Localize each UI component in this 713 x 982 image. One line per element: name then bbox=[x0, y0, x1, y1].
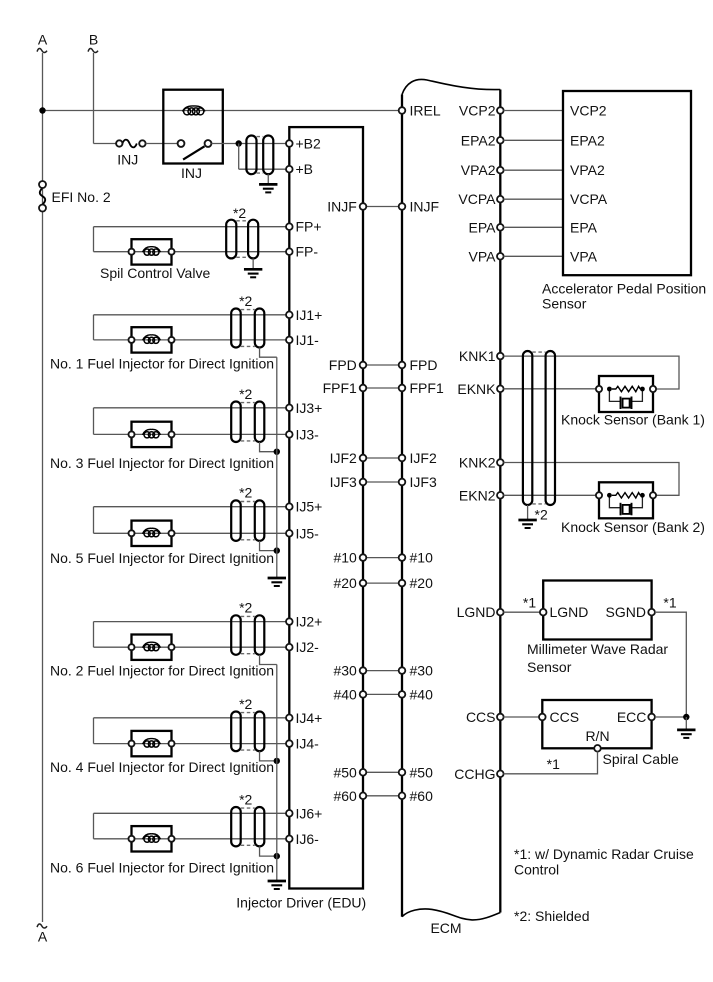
wire LGND bbox=[503, 611, 540, 613]
pin label EPA (APP sensor) bbox=[570, 219, 598, 235]
svg-text:ECM: ECM bbox=[430, 920, 461, 936]
terminal VPA (ECM) bbox=[469, 248, 504, 264]
wire IJF3 EDU to ECM bbox=[366, 481, 399, 483]
svg-text:IJ1+: IJ1+ bbox=[296, 307, 323, 323]
svg-text:*2: *2 bbox=[239, 293, 252, 309]
shield capsules IJ6 bbox=[231, 807, 264, 846]
terminal FP+ (EDU) bbox=[286, 219, 322, 235]
wire #50 EDU to ECM bbox=[366, 771, 399, 773]
svg-text:IJ3-: IJ3- bbox=[296, 426, 320, 442]
terminal #40 (EDU side) bbox=[333, 686, 366, 702]
terminal IJF3 (ECM side) bbox=[399, 474, 437, 490]
relay INJ switch bbox=[178, 140, 212, 160]
svg-text:*1: *1 bbox=[523, 595, 536, 611]
svg-text:A: A bbox=[38, 32, 48, 48]
svg-text:No. 2 Fuel Injector for Direct: No. 2 Fuel Injector for Direct Ignition bbox=[50, 663, 274, 679]
label Knock Sensor (Bank 2) bbox=[561, 519, 705, 535]
wire IJ4 shield drain bbox=[260, 751, 277, 761]
wire IJ2 loop bbox=[94, 622, 287, 648]
terminal FPF1 (ECM side) bbox=[399, 380, 444, 396]
label Spil Control Valve bbox=[100, 265, 210, 281]
wire SGND to ground bbox=[655, 612, 687, 717]
ground FP shield bbox=[244, 269, 262, 277]
label Millimeter Wave Radar Sensor bbox=[527, 641, 668, 675]
svg-text:Injector Driver (EDU): Injector Driver (EDU) bbox=[236, 895, 366, 911]
svg-text:IREL: IREL bbox=[410, 103, 441, 119]
terminal +B2 (EDU) bbox=[286, 136, 321, 152]
terminal IJ3- (EDU) bbox=[286, 426, 319, 442]
terminal INJF (ECM side) bbox=[399, 199, 439, 215]
terminal #30 (ECM side) bbox=[399, 663, 433, 679]
terminal #60 (ECM side) bbox=[399, 788, 433, 804]
svg-text:CCS: CCS bbox=[466, 709, 496, 725]
junction drain IJ4 bbox=[274, 758, 280, 764]
wire FP+ loop bbox=[94, 227, 287, 252]
terminal IJ6+ (EDU) bbox=[286, 805, 322, 821]
box ECM (top wavy edge) bbox=[402, 79, 500, 94]
svg-text:VCPA: VCPA bbox=[570, 191, 608, 207]
svg-text:*2: *2 bbox=[535, 507, 548, 523]
ground shield drain (upper) bbox=[268, 578, 286, 586]
wire VCP2 to APP sensor bbox=[503, 110, 563, 112]
shield dashes IJ4 bbox=[241, 713, 255, 751]
wire shield drain bus (upper) bbox=[276, 357, 278, 577]
terminal LGND (ECM) bbox=[457, 604, 504, 620]
svg-text:#40: #40 bbox=[333, 686, 357, 702]
label No. 2 Fuel Injector bbox=[50, 663, 274, 679]
terminal ECC (spiral cable) bbox=[617, 709, 655, 725]
svg-text:EPA: EPA bbox=[570, 219, 598, 235]
label Injector Driver (EDU) bbox=[236, 895, 366, 911]
terminal FPD (ECM side) bbox=[399, 357, 438, 373]
terminal R/N (spiral cable) bbox=[585, 728, 609, 752]
label ECM bbox=[430, 920, 461, 936]
svg-text:Control: Control bbox=[514, 861, 559, 877]
wire FP shield drain bbox=[252, 258, 254, 269]
terminal CCS (ECM) bbox=[466, 709, 504, 725]
shield dashes IJ3 bbox=[241, 403, 255, 441]
svg-text:IJ4-: IJ4- bbox=[296, 736, 320, 752]
svg-text:IJ5+: IJ5+ bbox=[296, 499, 323, 515]
wire B feed line bbox=[94, 53, 117, 144]
svg-text:IJF2: IJF2 bbox=[330, 450, 357, 466]
valve Spil Control Valve bbox=[129, 239, 175, 264]
wire ECC ground stem bbox=[685, 717, 687, 730]
relay INJ coil bbox=[183, 106, 205, 115]
terminal LGND (radar) bbox=[540, 604, 589, 620]
terminal EKN2 (ECM) bbox=[459, 487, 504, 503]
svg-text:IJF3: IJF3 bbox=[330, 474, 357, 490]
terminal SGND (radar) bbox=[606, 604, 655, 620]
pin label VPA2 (APP sensor) bbox=[570, 162, 605, 178]
svg-text:*2: *2 bbox=[233, 205, 246, 221]
label *2 IJ1 shield bbox=[239, 293, 252, 309]
junction ECC/SGND ground bbox=[683, 714, 689, 720]
injector No. 2 coil symbol bbox=[129, 635, 175, 660]
svg-text:Spil Control Valve: Spil Control Valve bbox=[100, 265, 210, 281]
note *2 bbox=[514, 908, 590, 924]
wire IJ1 shield drain bbox=[260, 348, 277, 358]
terminal #50 (EDU side) bbox=[333, 764, 366, 780]
svg-text:R/N: R/N bbox=[585, 728, 609, 744]
svg-text:IJF2: IJF2 bbox=[410, 450, 437, 466]
wire EPA2 to APP sensor bbox=[503, 139, 563, 141]
wire +B shield drain bbox=[267, 174, 269, 184]
terminal IJ5- (EDU) bbox=[286, 525, 319, 541]
wire #20 EDU to ECM bbox=[366, 582, 399, 584]
label No. 5 Fuel Injector bbox=[50, 550, 274, 566]
svg-text:EPA2: EPA2 bbox=[461, 132, 496, 148]
injector No. 5 coil symbol bbox=[129, 521, 175, 546]
terminal KNK1 (ECM) bbox=[459, 348, 504, 364]
terminal FPF1 (EDU side) bbox=[323, 380, 367, 396]
svg-text:*1: w/ Dynamic Radar Cruise: *1: w/ Dynamic Radar Cruise bbox=[514, 846, 694, 862]
svg-text:FPF1: FPF1 bbox=[323, 380, 357, 396]
terminal VPA2 (ECM) bbox=[461, 162, 504, 178]
svg-text:VPA2: VPA2 bbox=[461, 162, 496, 178]
label *1 (LGND wire) bbox=[523, 595, 536, 611]
svg-text:IJ3+: IJ3+ bbox=[296, 400, 323, 416]
terminal #20 (EDU side) bbox=[333, 575, 366, 591]
svg-text:Millimeter Wave Radar: Millimeter Wave Radar bbox=[527, 641, 668, 657]
svg-text:No. 4 Fuel Injector for Direct: No. 4 Fuel Injector for Direct Ignition bbox=[50, 759, 274, 775]
wire shield drain bus (lower) bbox=[276, 665, 278, 881]
label *2 IJ4 shield bbox=[239, 696, 252, 712]
junction drain IJ3 bbox=[274, 449, 280, 455]
terminal IJF3 (EDU side) bbox=[330, 474, 367, 490]
label fuse INJ bbox=[117, 151, 138, 167]
svg-text:#50: #50 bbox=[410, 764, 434, 780]
svg-text:Sensor: Sensor bbox=[527, 659, 572, 675]
shield dashes IJ2 bbox=[241, 616, 255, 653]
shield dashes IJ1 bbox=[241, 310, 255, 347]
svg-text:IJ4+: IJ4+ bbox=[296, 710, 323, 726]
svg-text:IJ5-: IJ5- bbox=[296, 525, 320, 541]
terminal #40 (ECM side) bbox=[399, 686, 433, 702]
shield capsules IJ3 bbox=[231, 402, 264, 443]
label No. 6 Fuel Injector bbox=[50, 859, 274, 875]
wire IJ1 loop bbox=[94, 315, 287, 340]
svg-text:VCP2: VCP2 bbox=[459, 103, 496, 119]
svg-text:No. 3 Fuel Injector for Direct: No. 3 Fuel Injector for Direct Ignition bbox=[50, 455, 274, 471]
svg-text:KNK1: KNK1 bbox=[459, 348, 496, 364]
pin label VPA (APP sensor) bbox=[570, 248, 598, 264]
svg-text:KNK2: KNK2 bbox=[459, 455, 496, 471]
wire VPA to APP sensor bbox=[503, 255, 563, 257]
svg-text:#10: #10 bbox=[333, 550, 357, 566]
wire EKNK bbox=[503, 388, 596, 390]
svg-text:#20: #20 bbox=[333, 575, 357, 591]
svg-text:INJ: INJ bbox=[117, 151, 138, 167]
svg-text:INJF: INJF bbox=[410, 199, 440, 215]
wire EPA to APP sensor bbox=[503, 226, 563, 228]
shield dashes FP bbox=[236, 221, 248, 257]
svg-text:+B2: +B2 bbox=[296, 136, 322, 152]
terminal IJ1+ (EDU) bbox=[286, 307, 322, 323]
svg-text:*2: Shielded: *2: Shielded bbox=[514, 908, 590, 924]
wire FPF1 EDU to ECM bbox=[366, 387, 399, 389]
wire IJ3 shield drain bbox=[260, 442, 277, 452]
shield dashes +B2/+B bbox=[257, 137, 264, 174]
svg-text:#60: #60 bbox=[333, 788, 357, 804]
shield capsules IJ4 bbox=[231, 712, 264, 752]
terminal EPA2 (ECM) bbox=[461, 132, 504, 148]
junction relay output bbox=[236, 140, 242, 146]
terminal IJF2 (ECM side) bbox=[399, 450, 437, 466]
terminal EPA (ECM) bbox=[469, 219, 504, 235]
terminal IJF2 (EDU side) bbox=[330, 450, 367, 466]
wire FPD EDU to ECM bbox=[366, 364, 399, 366]
terminal IJ2- (EDU) bbox=[286, 639, 319, 655]
wire KNK1 bbox=[503, 356, 679, 389]
pin label VCPA (APP sensor) bbox=[570, 191, 608, 207]
node A (bottom) label bbox=[37, 924, 48, 945]
shield dashes IJ5 bbox=[241, 502, 255, 540]
box ECM (left edge) bbox=[401, 95, 403, 917]
svg-text:*1: *1 bbox=[663, 595, 676, 611]
label *2 IJ6 shield bbox=[239, 791, 252, 807]
svg-text:EFI No. 2: EFI No. 2 bbox=[52, 189, 111, 205]
svg-text:VPA: VPA bbox=[469, 248, 497, 264]
svg-text:No. 5 Fuel Injector for Direct: No. 5 Fuel Injector for Direct Ignition bbox=[50, 550, 274, 566]
terminal FPD (EDU side) bbox=[329, 357, 367, 373]
wire #30 EDU to ECM bbox=[366, 670, 399, 672]
terminal IJ1- (EDU) bbox=[286, 332, 319, 348]
shield capsules IJ1 bbox=[231, 309, 264, 348]
svg-text:VCP2: VCP2 bbox=[570, 103, 607, 119]
wire relay to +B2 bbox=[211, 143, 286, 145]
wire #10 EDU to ECM bbox=[366, 557, 399, 559]
terminal VCPA (ECM) bbox=[458, 191, 503, 207]
svg-text:#10: #10 bbox=[410, 550, 434, 566]
shield capsules FP bbox=[226, 220, 258, 259]
svg-text:#50: #50 bbox=[333, 764, 357, 780]
wire IJ6 loop bbox=[94, 813, 287, 839]
wire A feed line bbox=[42, 53, 44, 922]
label *1 (CCHG wire) bbox=[547, 756, 560, 772]
box Injector Driver (EDU) bbox=[289, 127, 363, 888]
relay INJ box bbox=[163, 90, 223, 164]
injector No. 1 coil symbol bbox=[129, 327, 175, 352]
label No. 1 Fuel Injector bbox=[50, 355, 274, 371]
svg-text:INJF: INJF bbox=[327, 199, 357, 215]
terminal IJ3+ (EDU) bbox=[286, 400, 322, 416]
terminal IREL (ECM) bbox=[399, 103, 441, 119]
wire VCPA to APP sensor bbox=[503, 198, 563, 200]
shield capsules +B2/+B bbox=[246, 136, 273, 175]
terminal VCP2 (ECM) bbox=[459, 103, 504, 119]
svg-text:VPA: VPA bbox=[570, 248, 598, 264]
terminal #20 (ECM side) bbox=[399, 575, 433, 591]
label Accelerator Pedal Position Sensor bbox=[542, 281, 706, 312]
svg-text:IJF3: IJF3 bbox=[410, 474, 437, 490]
svg-text:+B: +B bbox=[296, 161, 314, 177]
wire #40 EDU to ECM bbox=[366, 693, 399, 695]
label *2 IJ2 shield bbox=[239, 600, 252, 616]
terminal IJ4- (EDU) bbox=[286, 736, 319, 752]
svg-text:VCPA: VCPA bbox=[458, 191, 496, 207]
box Millimeter Wave Radar Sensor bbox=[543, 581, 651, 640]
shield capsules IJ2 bbox=[231, 615, 264, 655]
shield capsules IJ5 bbox=[231, 500, 264, 541]
svg-text:FP-: FP- bbox=[296, 244, 319, 260]
terminal #50 (ECM side) bbox=[399, 764, 433, 780]
wire IJ6 shield drain bbox=[260, 846, 277, 856]
svg-text:*2: *2 bbox=[239, 696, 252, 712]
injector No. 6 coil symbol bbox=[129, 826, 175, 851]
wire IJ4 loop bbox=[94, 718, 287, 744]
label No. 3 Fuel Injector bbox=[50, 455, 274, 471]
svg-text:Sensor: Sensor bbox=[542, 296, 587, 312]
wire knock shield drain bbox=[527, 505, 529, 520]
svg-text:FPD: FPD bbox=[329, 357, 357, 373]
svg-text:IJ2+: IJ2+ bbox=[296, 614, 323, 630]
label Knock Sensor (Bank 1) bbox=[561, 411, 705, 427]
terminal #60 (EDU side) bbox=[333, 788, 366, 804]
wire junction down to +B bbox=[239, 144, 286, 170]
svg-text:IJ6-: IJ6- bbox=[296, 831, 320, 847]
terminal INJF (EDU side) bbox=[327, 199, 366, 215]
shield capsules knock bbox=[523, 351, 555, 505]
node A (top) label bbox=[37, 32, 48, 53]
terminal EKNK (ECM) bbox=[457, 381, 503, 397]
junction A/main bbox=[39, 107, 45, 113]
svg-text:CCS: CCS bbox=[550, 709, 580, 725]
label *2 knock shield bbox=[535, 507, 548, 523]
svg-text:ECC: ECC bbox=[617, 709, 647, 725]
svg-text:*2: *2 bbox=[239, 791, 252, 807]
box ECM (right edge) bbox=[499, 90, 501, 913]
note *1 bbox=[514, 846, 694, 878]
junction drain IJ5 bbox=[274, 547, 280, 553]
pin label VCP2 (APP sensor) bbox=[570, 103, 607, 119]
wire fuse to relay bbox=[146, 143, 181, 145]
wire CCS bbox=[503, 716, 539, 718]
svg-text:Knock Sensor (Bank 2): Knock Sensor (Bank 2) bbox=[561, 519, 705, 535]
terminal CCHG (ECM) bbox=[454, 766, 503, 782]
wire IJ5 shield drain bbox=[260, 541, 277, 551]
svg-text:FPD: FPD bbox=[410, 357, 438, 373]
label No. 4 Fuel Injector bbox=[50, 759, 274, 775]
label *2 FP shield bbox=[233, 205, 246, 221]
svg-text:EKN2: EKN2 bbox=[459, 487, 496, 503]
svg-text:#30: #30 bbox=[333, 663, 357, 679]
junction drain IJ6 bbox=[274, 853, 280, 859]
ground knock shield bbox=[518, 520, 536, 528]
svg-text:#60: #60 bbox=[410, 788, 434, 804]
svg-text:EPA2: EPA2 bbox=[570, 132, 605, 148]
label *2 IJ3 shield bbox=[239, 386, 252, 402]
ground shield drain (lower) bbox=[268, 881, 286, 889]
svg-text:FP+: FP+ bbox=[296, 219, 322, 235]
wire IJ2 shield drain bbox=[260, 655, 277, 665]
svg-text:#40: #40 bbox=[410, 686, 434, 702]
svg-text:FPF1: FPF1 bbox=[410, 380, 444, 396]
injector No. 3 coil symbol bbox=[129, 422, 175, 447]
svg-text:*2: *2 bbox=[239, 386, 252, 402]
svg-text:#30: #30 bbox=[410, 663, 434, 679]
svg-text:IJ6+: IJ6+ bbox=[296, 805, 323, 821]
label *1 (SGND wire) bbox=[663, 595, 676, 611]
label relay INJ bbox=[181, 165, 202, 181]
svg-text:EPA: EPA bbox=[469, 219, 497, 235]
svg-text:B: B bbox=[89, 32, 98, 48]
wire KNK2 bbox=[503, 463, 679, 496]
terminal IJ2+ (EDU) bbox=[286, 614, 322, 630]
wire EKN2 bbox=[503, 494, 596, 496]
svg-text:Knock Sensor (Bank 1): Knock Sensor (Bank 1) bbox=[561, 411, 705, 427]
ground ECC bbox=[677, 730, 695, 738]
svg-text:VPA2: VPA2 bbox=[570, 162, 605, 178]
wire INJF EDU to ECM bbox=[366, 206, 399, 208]
svg-text:A: A bbox=[38, 929, 48, 945]
svg-text:No. 6 Fuel Injector for Direct: No. 6 Fuel Injector for Direct Ignition bbox=[50, 859, 274, 875]
terminal #10 (ECM side) bbox=[399, 550, 433, 566]
terminal FP- (EDU) bbox=[286, 244, 318, 260]
svg-text:No. 1 Fuel Injector for Direct: No. 1 Fuel Injector for Direct Ignition bbox=[50, 355, 274, 371]
label *2 IJ5 shield bbox=[239, 485, 252, 501]
label EFI No. 2 bbox=[52, 189, 111, 205]
wire ECC to ground bbox=[655, 716, 687, 718]
svg-text:EKNK: EKNK bbox=[457, 381, 496, 397]
svg-text:Spiral Cable: Spiral Cable bbox=[603, 751, 679, 767]
wire VPA2 to APP sensor bbox=[503, 169, 563, 171]
svg-text:LGND: LGND bbox=[457, 604, 496, 620]
box Accelerator Pedal Position Sensor bbox=[563, 91, 691, 275]
terminal #30 (EDU side) bbox=[333, 663, 366, 679]
terminal #10 (EDU side) bbox=[333, 550, 366, 566]
svg-text:#20: #20 bbox=[410, 575, 434, 591]
svg-text:CCHG: CCHG bbox=[454, 766, 495, 782]
box Spiral Cable bbox=[542, 700, 651, 748]
pin label EPA2 (APP sensor) bbox=[570, 132, 605, 148]
svg-text:*2: *2 bbox=[239, 485, 252, 501]
svg-text:Accelerator Pedal Position: Accelerator Pedal Position bbox=[542, 281, 706, 297]
fuse EFI No. 2 bbox=[39, 181, 46, 212]
shield dashes knock bbox=[532, 352, 545, 504]
terminal IJ4+ (EDU) bbox=[286, 710, 322, 726]
svg-text:*1: *1 bbox=[547, 756, 560, 772]
knock sensor (Bank 1) symbol bbox=[596, 376, 656, 412]
knock sensor (Bank 2) symbol bbox=[596, 482, 656, 518]
wire R/N to CCHG bbox=[503, 751, 597, 773]
terminal IJ6- (EDU) bbox=[286, 831, 319, 847]
fuse INJ bbox=[116, 140, 145, 148]
node B (top) label bbox=[88, 32, 98, 53]
wire main relay feed (to IREL) bbox=[43, 110, 400, 112]
terminal KNK2 (ECM) bbox=[459, 455, 504, 471]
wire #60 EDU to ECM bbox=[366, 795, 399, 797]
terminal +B (EDU) bbox=[286, 161, 313, 177]
svg-text:IJ2-: IJ2- bbox=[296, 639, 320, 655]
shield dashes IJ6 bbox=[241, 808, 255, 845]
svg-text:*2: *2 bbox=[239, 600, 252, 616]
svg-text:INJ: INJ bbox=[181, 165, 202, 181]
label Spiral Cable bbox=[603, 751, 679, 767]
wire IJ5 loop bbox=[94, 507, 287, 534]
wire IJF2 EDU to ECM bbox=[366, 457, 399, 459]
wire IJ3 loop bbox=[94, 408, 287, 435]
svg-text:LGND: LGND bbox=[550, 604, 589, 620]
terminal CCS (spiral cable) bbox=[539, 709, 579, 725]
svg-text:SGND: SGND bbox=[606, 604, 646, 620]
ground +B shield bbox=[259, 184, 277, 192]
box ECM (bottom wavy edge) bbox=[402, 909, 500, 920]
injector No. 4 coil symbol bbox=[129, 731, 175, 756]
terminal IJ5+ (EDU) bbox=[286, 499, 322, 515]
svg-text:IJ1-: IJ1- bbox=[296, 332, 320, 348]
